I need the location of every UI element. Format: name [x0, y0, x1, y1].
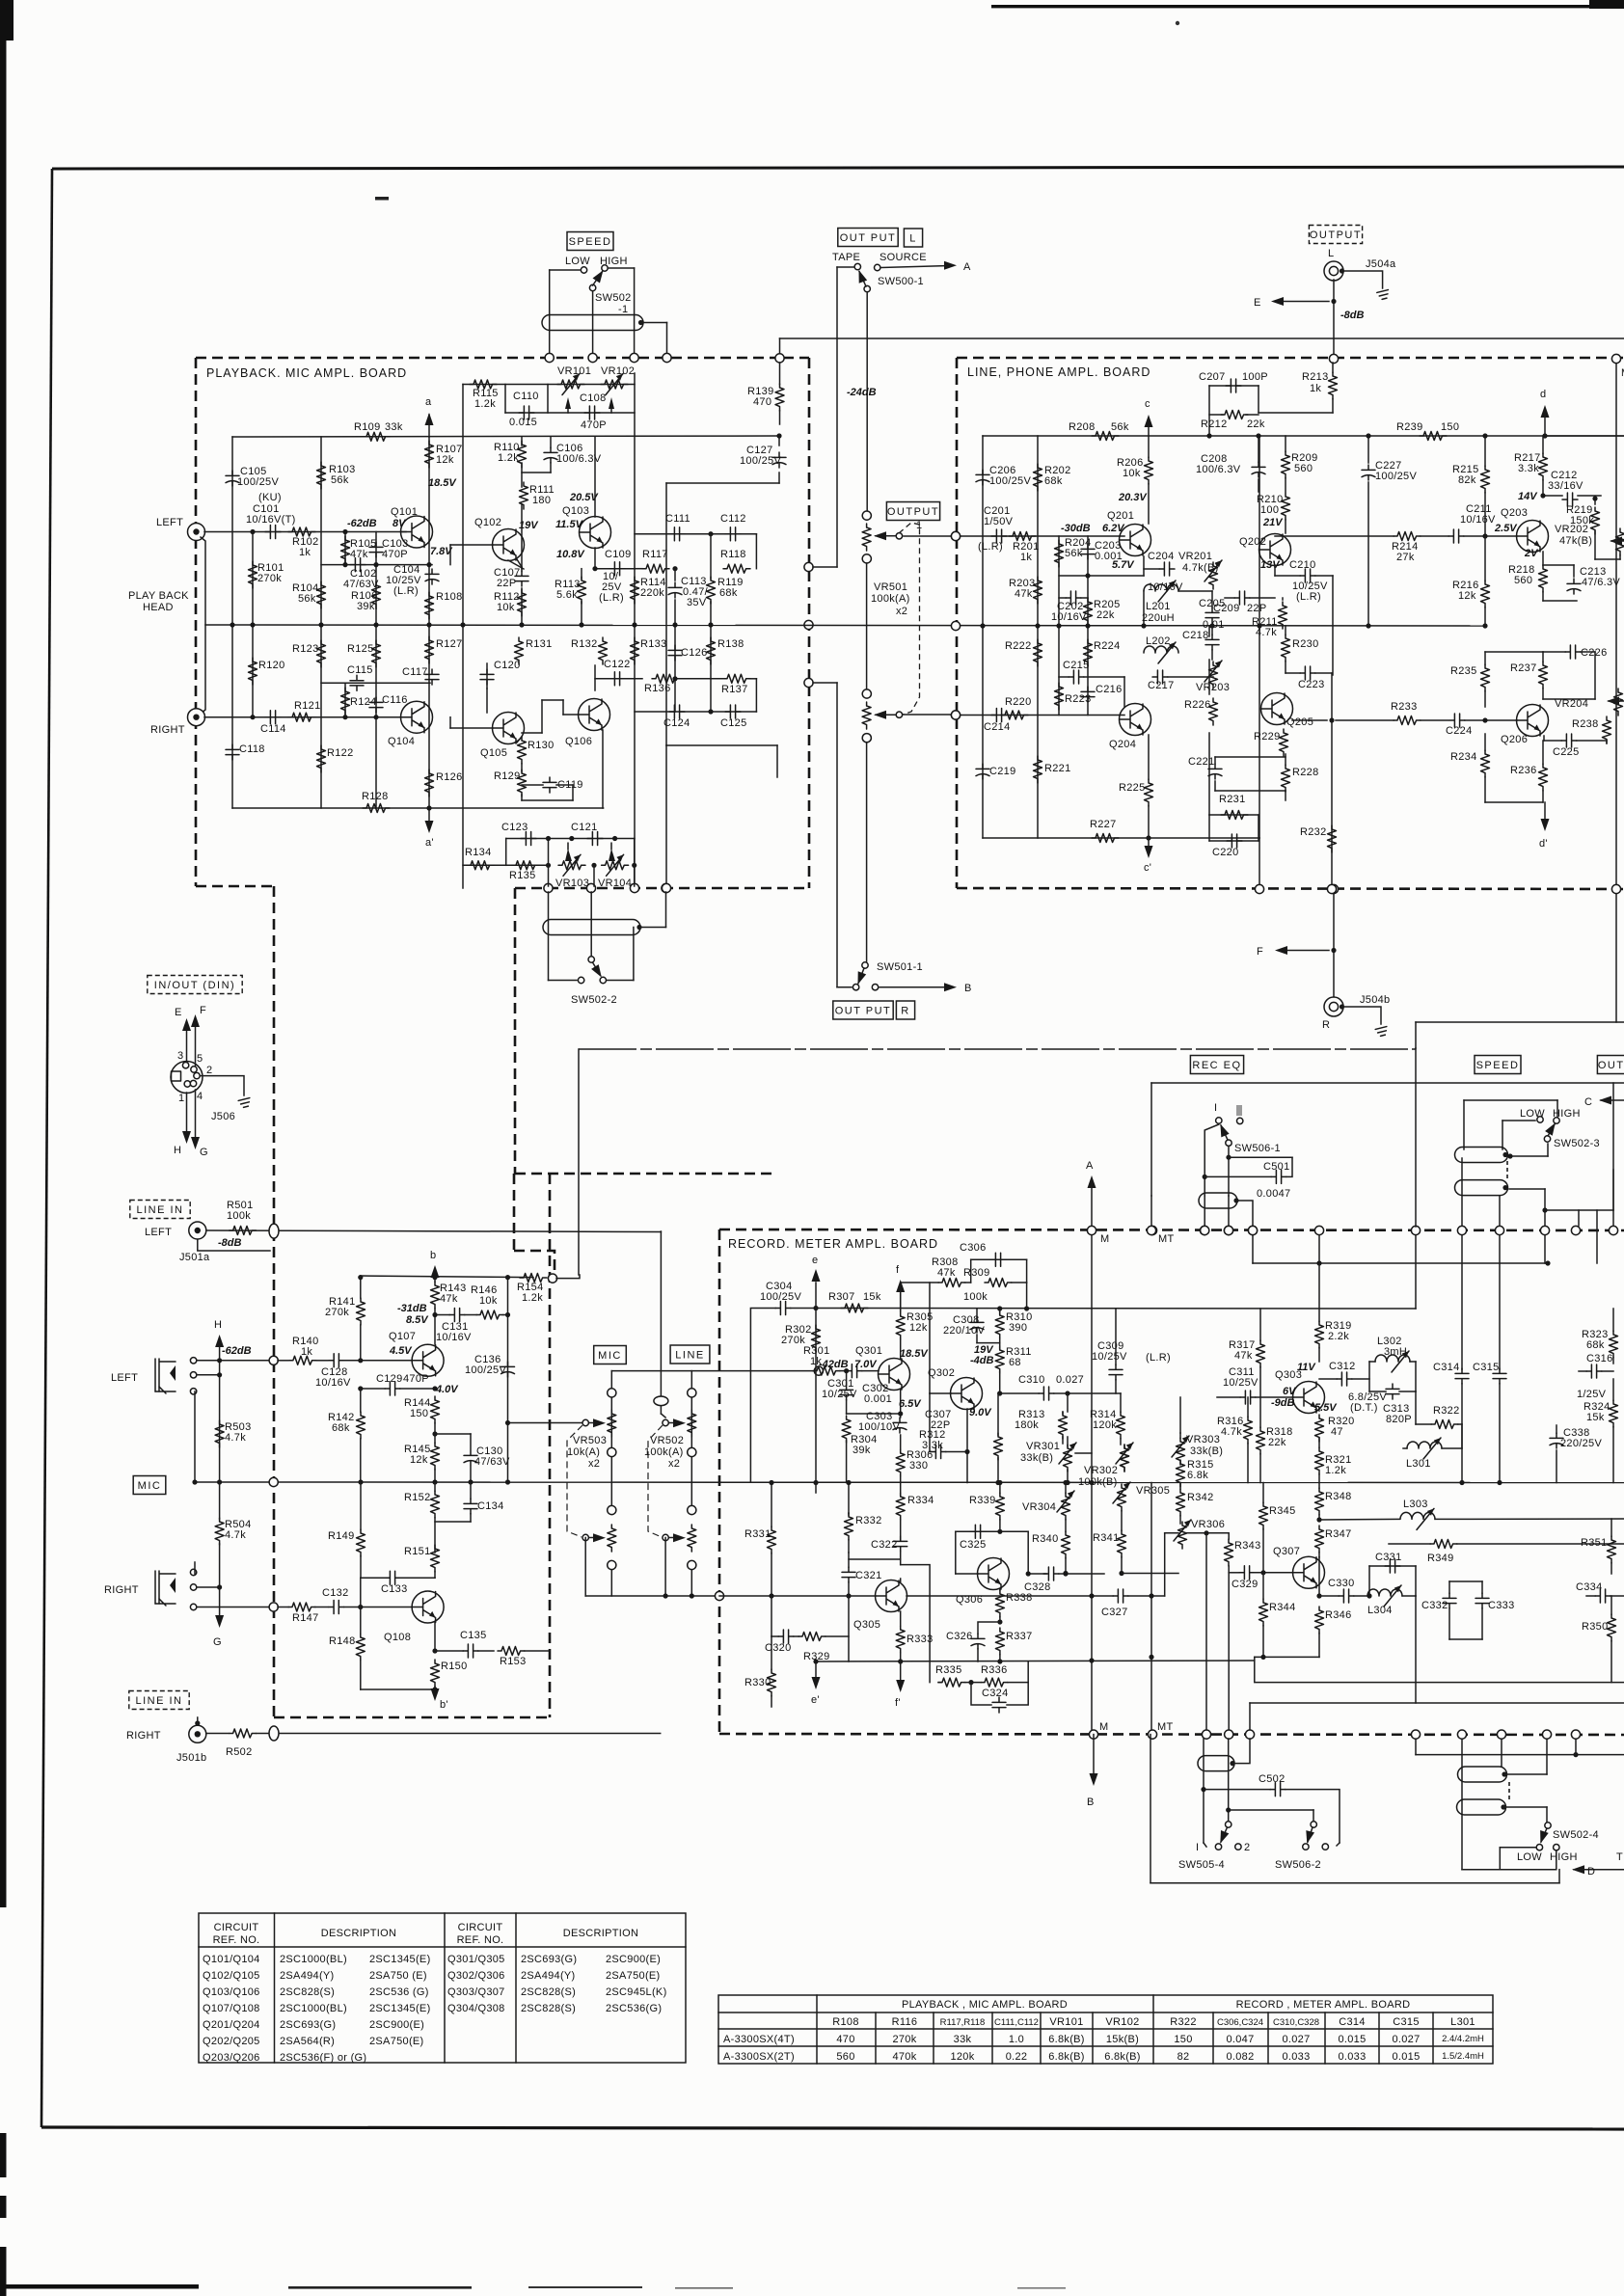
resistor VR305	[1118, 1484, 1126, 1511]
wire	[1581, 651, 1595, 653]
svg-text:0.015: 0.015	[509, 417, 537, 428]
wire	[435, 1314, 449, 1316]
resistor R310	[995, 1311, 1004, 1338]
capacitor C308	[970, 1317, 984, 1333]
wire	[195, 1481, 1624, 1484]
wire	[1027, 1531, 1029, 1574]
resistor R501	[230, 1227, 257, 1235]
wire	[521, 463, 523, 487]
wire	[1402, 1595, 1416, 1597]
svg-text:C330: C330	[1328, 1578, 1355, 1589]
wire	[1229, 1156, 1292, 1158]
svg-text:0.027: 0.027	[1282, 2034, 1310, 2045]
svg-text:100/10V: 100/10V	[858, 1421, 900, 1433]
capacitor C132	[329, 1601, 344, 1614]
wire	[1612, 1379, 1614, 1400]
page border bottom	[41, 2127, 1624, 2129]
svg-text:R335: R335	[935, 1664, 962, 1676]
wire	[434, 1309, 436, 1344]
junction	[1256, 433, 1260, 438]
svg-text:Q304/Q308: Q304/Q308	[447, 2003, 505, 2014]
svg-text:x2: x2	[896, 606, 907, 617]
svg-text:R135: R135	[509, 870, 536, 881]
capacitor C227	[1362, 465, 1375, 480]
svg-text:J504b: J504b	[1360, 994, 1390, 1006]
wire	[435, 1650, 463, 1652]
wire	[1286, 1157, 1292, 1176]
resistor R502	[230, 1729, 257, 1738]
svg-text:C124: C124	[663, 717, 690, 729]
contact	[1545, 1823, 1551, 1828]
capacitor C209	[1234, 591, 1250, 605]
svg-text:LOW: LOW	[1517, 1851, 1542, 1863]
wire	[956, 1573, 978, 1575]
svg-text:47: 47	[1331, 1426, 1343, 1438]
wire	[866, 563, 868, 689]
svg-text:56k: 56k	[298, 593, 316, 605]
resistor R133	[631, 637, 639, 664]
junction	[1545, 1260, 1550, 1265]
transistor Q108	[412, 1591, 444, 1623]
wire	[522, 732, 542, 734]
wire	[1229, 1809, 1313, 1811]
wire	[1282, 625, 1284, 626]
terminal	[1248, 1226, 1257, 1234]
resistor R318	[1257, 1427, 1265, 1454]
terminal	[1089, 1730, 1097, 1739]
resistor R131	[515, 637, 524, 664]
arrow	[854, 268, 867, 283]
svg-text:2SC693(G): 2SC693(G)	[521, 1954, 577, 1965]
wire	[1209, 414, 1223, 416]
wire	[1544, 740, 1561, 742]
wire	[1258, 479, 1259, 492]
resistor R101	[249, 561, 257, 588]
wire	[521, 795, 523, 800]
wire	[1215, 790, 1286, 792]
contact	[582, 1419, 588, 1425]
wire	[849, 1558, 901, 1560]
label box LINE IN	[130, 1201, 190, 1219]
wire	[1578, 1210, 1580, 1226]
svg-text:R221: R221	[1044, 763, 1071, 774]
svg-text:VR103: VR103	[555, 878, 589, 889]
wire	[1215, 756, 1286, 758]
svg-text:560: 560	[1294, 463, 1313, 474]
wire	[1249, 1703, 1251, 1730]
junction	[217, 1479, 222, 1484]
wire	[1332, 399, 1334, 413]
capacitor C119	[543, 777, 556, 793]
resistor R340	[1062, 1531, 1070, 1558]
wire	[1543, 600, 1577, 602]
terminal	[688, 1505, 696, 1514]
wire	[1415, 1566, 1417, 1596]
junction	[1260, 1570, 1265, 1575]
svg-text:-62dB: -62dB	[222, 1345, 252, 1357]
junction	[432, 1648, 437, 1653]
terminal	[951, 531, 960, 540]
terminal	[548, 1274, 556, 1283]
wire	[1151, 1082, 1624, 1084]
terminal	[951, 711, 960, 719]
wire	[589, 1422, 600, 1424]
wire	[815, 1661, 817, 1684]
wire	[375, 532, 377, 809]
wire	[961, 715, 1124, 716]
svg-text:39k: 39k	[853, 1445, 871, 1456]
svg-text:SW502-2: SW502-2	[571, 994, 617, 1006]
svg-text:1/25V: 1/25V	[1577, 1389, 1607, 1400]
svg-text:LEFT: LEFT	[156, 517, 183, 528]
wire	[360, 1278, 362, 1298]
wire	[1315, 672, 1332, 674]
wire	[837, 986, 852, 988]
capacitor C126	[668, 645, 682, 661]
junction	[217, 1358, 222, 1363]
box	[199, 1913, 686, 2063]
capacitor C207	[1226, 379, 1241, 392]
wire	[674, 600, 676, 712]
wire	[1432, 2012, 1434, 2064]
svg-text:2SC1345(E): 2SC1345(E)	[369, 1954, 431, 1965]
wire	[1148, 838, 1150, 852]
svg-text:C221: C221	[1188, 756, 1215, 768]
svg-text:33k: 33k	[954, 2034, 972, 2045]
svg-text:C135: C135	[460, 1630, 487, 1641]
svg-text:2SA494(Y): 2SA494(Y)	[521, 1970, 576, 1982]
wire	[710, 602, 712, 712]
svg-text:R226: R226	[1184, 699, 1211, 711]
wire	[848, 1540, 850, 1553]
wire	[1165, 1532, 1178, 1534]
svg-text:-62dB: -62dB	[347, 518, 377, 529]
svg-text:100/25V: 100/25V	[760, 1291, 801, 1303]
svg-text:L202: L202	[1146, 635, 1171, 647]
wire	[846, 1400, 848, 1414]
svg-text:e': e'	[811, 1694, 820, 1706]
contact	[581, 267, 586, 273]
terminal	[1609, 1226, 1617, 1234]
wire	[900, 1390, 902, 1418]
resistor R148	[356, 1634, 365, 1661]
wire	[1065, 1558, 1067, 1574]
switch wafer	[542, 315, 643, 331]
wire	[876, 535, 895, 537]
wire	[1415, 1739, 1417, 1755]
jack MIC LEFT	[155, 1359, 176, 1391]
resistor R317	[1257, 1340, 1265, 1367]
svg-text:4.7k: 4.7k	[1256, 627, 1277, 638]
junction	[898, 1659, 903, 1663]
wire	[1262, 1573, 1264, 1599]
svg-text:OUT PUT: OUT PUT	[840, 232, 897, 244]
resistor R306	[896, 1449, 905, 1476]
label box MIC	[594, 1346, 627, 1364]
wire	[219, 1338, 221, 1482]
resistor R139	[775, 384, 784, 411]
contact	[588, 957, 594, 962]
wire	[1236, 1201, 1253, 1226]
wire	[360, 1607, 362, 1634]
wire	[1378, 2012, 1380, 2064]
svg-text:(D.T.): (D.T.)	[1350, 1402, 1378, 1414]
wire	[904, 714, 956, 716]
svg-text:120k: 120k	[1093, 1419, 1117, 1431]
arrow	[1145, 415, 1153, 427]
wire	[562, 700, 564, 715]
wire	[361, 1388, 385, 1390]
svg-text:PLAYBACK , MIC AMPL. BOARD: PLAYBACK , MIC AMPL. BOARD	[902, 1999, 1068, 2011]
capacitor C313	[1386, 1384, 1399, 1399]
terminal	[1495, 1226, 1503, 1234]
capacitor C104	[425, 569, 439, 584]
svg-text:R224: R224	[1094, 640, 1121, 652]
wire	[1403, 1447, 1407, 1449]
svg-text:C215: C215	[1063, 660, 1090, 671]
wire	[836, 267, 838, 567]
contact	[602, 265, 608, 271]
resistor R336	[981, 1678, 1008, 1687]
board boundary (dashed)	[515, 887, 809, 890]
wire	[1247, 1397, 1249, 1417]
contact	[589, 284, 595, 290]
wire	[1258, 815, 1259, 841]
wire	[1279, 950, 1329, 952]
wire	[594, 548, 596, 569]
junction	[432, 1312, 437, 1317]
junction	[1482, 433, 1487, 438]
svg-text:R108: R108	[436, 591, 463, 603]
wire	[1275, 301, 1329, 303]
junction	[1482, 623, 1487, 628]
wire	[1586, 1595, 1595, 1597]
resistor VR101	[557, 380, 584, 389]
svg-text:CIRCUIT: CIRCUIT	[458, 1922, 503, 1933]
wire	[206, 1230, 661, 1232]
jack	[188, 524, 205, 541]
wire	[550, 269, 580, 271]
wire	[1610, 1641, 1612, 1683]
svg-text:0.033: 0.033	[1282, 2051, 1310, 2063]
resistor R132	[599, 637, 608, 664]
board boundary (dashed)	[274, 1716, 550, 1719]
wire	[1504, 1773, 1547, 1775]
wire	[999, 1309, 1001, 1313]
terminal	[804, 620, 813, 629]
svg-text:180k: 180k	[1015, 1419, 1039, 1431]
svg-text:R212: R212	[1201, 419, 1228, 430]
svg-text:12k: 12k	[1458, 590, 1476, 602]
wire	[1067, 1470, 1069, 1483]
capacitor C109	[609, 562, 625, 576]
wire	[257, 1733, 661, 1735]
wire	[1318, 1438, 1320, 1447]
wire	[900, 1552, 902, 1565]
contact	[1235, 1844, 1241, 1850]
junction	[995, 1480, 1000, 1485]
svg-text:R332: R332	[855, 1515, 882, 1526]
wire	[1204, 1124, 1219, 1196]
resistor R237	[1539, 662, 1548, 689]
transistor Q102	[493, 529, 525, 561]
resistor R351	[1608, 1536, 1616, 1563]
svg-text:LINE IN: LINE IN	[136, 1204, 183, 1216]
resistor R208	[1092, 432, 1119, 441]
svg-text:2SA750 (E): 2SA750 (E)	[369, 1970, 427, 1982]
adjust arrow	[1113, 1482, 1130, 1503]
wire	[321, 564, 432, 566]
wire	[956, 1530, 1028, 1532]
wire	[525, 1650, 550, 1652]
svg-text:1.5/2.4mH: 1.5/2.4mH	[1442, 2051, 1484, 2062]
junction	[373, 562, 378, 567]
resistor R102	[288, 527, 315, 536]
svg-text:0.0047: 0.0047	[1257, 1188, 1290, 1200]
wire	[779, 338, 781, 358]
capacitor C329	[1239, 1566, 1255, 1580]
svg-text:C108: C108	[580, 392, 607, 404]
svg-text:10.8V: 10.8V	[556, 549, 585, 560]
board boundary (dashed)	[196, 885, 274, 888]
svg-text:1k: 1k	[301, 1346, 312, 1358]
resistor R349	[1430, 1540, 1457, 1549]
page border top	[52, 167, 1624, 169]
inductor L302	[1375, 1355, 1410, 1362]
wire	[929, 1393, 931, 1452]
resistor VR501a	[862, 524, 871, 551]
wire	[750, 1309, 775, 1483]
resistor R219	[1591, 507, 1600, 534]
wire	[1367, 482, 1369, 626]
terminal	[1255, 884, 1263, 893]
svg-text:560: 560	[1514, 575, 1532, 586]
resistor R119	[707, 577, 716, 604]
junction	[1085, 623, 1090, 628]
resistor R227	[1092, 834, 1119, 843]
wire	[1075, 1452, 1092, 1454]
junction	[1149, 1655, 1153, 1660]
wire	[434, 1689, 436, 1695]
resistor R122	[317, 745, 326, 772]
arrow	[1572, 1865, 1584, 1874]
svg-text:(L.R): (L.R)	[599, 592, 624, 604]
wire	[1067, 1393, 1069, 1412]
resistor R141	[357, 1298, 365, 1325]
junction	[1063, 1480, 1068, 1485]
svg-text:330: 330	[909, 1460, 928, 1472]
wire	[320, 437, 322, 808]
svg-text:R345: R345	[1269, 1505, 1296, 1517]
resistor R118	[723, 564, 750, 573]
svg-text:PLAYBACK. MIC AMPL. BOARD: PLAYBACK. MIC AMPL. BOARD	[206, 366, 407, 380]
junction	[1340, 268, 1344, 273]
svg-text:68: 68	[1009, 1357, 1021, 1368]
capacitor C124	[669, 705, 685, 718]
wire	[1610, 1596, 1612, 1614]
contact	[1322, 1844, 1328, 1850]
terminal	[608, 1560, 616, 1569]
wire	[449, 545, 451, 565]
capacitor C114	[265, 711, 281, 724]
svg-text:R222: R222	[1005, 640, 1032, 652]
svg-text:C324: C324	[982, 1688, 1009, 1699]
junction	[426, 562, 431, 567]
resistor R239	[1420, 432, 1447, 441]
capacitor C215	[1069, 670, 1084, 684]
svg-text:8V: 8V	[392, 518, 407, 529]
wire	[204, 716, 406, 718]
capacitor C217	[1152, 670, 1168, 684]
svg-text:R117,R118: R117,R118	[940, 2017, 986, 2028]
wire	[232, 436, 777, 437]
svg-text:R118: R118	[720, 549, 746, 560]
wire	[1186, 1532, 1224, 1534]
wire	[505, 412, 635, 414]
wire	[1285, 436, 1286, 451]
svg-text:C329: C329	[1232, 1579, 1259, 1590]
resistor R140	[289, 1356, 316, 1364]
svg-text:2: 2	[206, 1065, 212, 1076]
svg-text:100: 100	[1260, 504, 1279, 516]
svg-text:100k: 100k	[227, 1210, 251, 1222]
svg-text:SW500-1: SW500-1	[878, 276, 924, 287]
svg-text:R234: R234	[1450, 751, 1477, 763]
wire	[876, 714, 895, 716]
wire	[1574, 1869, 1624, 1871]
wire	[1500, 1847, 1535, 1849]
wire	[1318, 1557, 1320, 1596]
contact	[190, 1569, 196, 1575]
wire	[1543, 651, 1565, 653]
svg-text:R331: R331	[744, 1528, 771, 1540]
svg-text:2SC828(S): 2SC828(S)	[521, 1986, 576, 1998]
svg-text:R348: R348	[1325, 1491, 1352, 1502]
wire	[1416, 1754, 1624, 1756]
wire	[1179, 1516, 1181, 1524]
svg-text:22P: 22P	[1247, 603, 1266, 614]
board boundary (dashed)	[957, 357, 1624, 360]
svg-text:470P: 470P	[581, 419, 607, 431]
svg-text:7.0V: 7.0V	[854, 1359, 878, 1370]
wire	[816, 1661, 1255, 1661]
wire	[252, 625, 254, 717]
wire	[1578, 495, 1601, 497]
svg-text:270k: 270k	[892, 2034, 916, 2045]
resistor VR302x	[1121, 1445, 1129, 1472]
resistor R348	[1315, 1488, 1324, 1515]
transistor Q106	[579, 699, 610, 731]
resistor R331	[768, 1526, 776, 1553]
wire	[816, 1308, 1416, 1310]
wire	[976, 1335, 978, 1343]
wire	[504, 385, 506, 414]
resistor R117	[642, 564, 669, 573]
wire	[901, 1565, 930, 1683]
svg-text:C125: C125	[720, 717, 747, 729]
resistor R130	[518, 737, 527, 764]
wire	[470, 1514, 472, 1522]
svg-text:MT: MT	[1157, 1721, 1173, 1733]
svg-text:C327: C327	[1101, 1607, 1128, 1618]
arrow	[874, 531, 886, 540]
arrow	[591, 964, 606, 980]
wire	[661, 1414, 665, 1418]
contact	[190, 1389, 196, 1394]
svg-text:R147: R147	[292, 1612, 319, 1624]
svg-text:SW505-4: SW505-4	[1178, 1859, 1225, 1871]
wire	[1209, 385, 1259, 387]
